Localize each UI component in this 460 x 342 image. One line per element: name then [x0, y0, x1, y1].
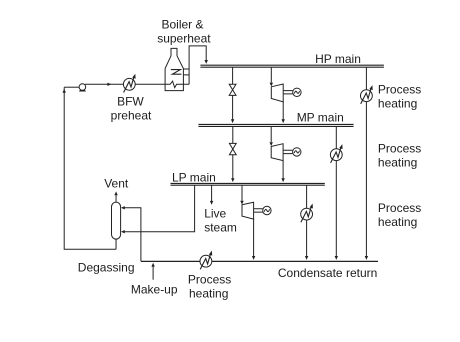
generator G1 — [293, 88, 301, 96]
shaft T2 — [283, 150, 293, 153]
pipe: pump suction from loop corner — [64, 86, 79, 88]
svg-text:HP main: HP main — [315, 52, 361, 66]
turbine T1 (HP) — [271, 84, 283, 102]
pipe: make-up feed — [152, 266, 154, 279]
pipe: MP turbine inlet — [270, 126, 272, 142]
svg-text:Live: Live — [204, 207, 226, 221]
arrow: vent up arrow — [114, 191, 117, 195]
arrow: boiler steam onto HP main — [205, 60, 208, 64]
svg-text:Process: Process — [378, 82, 421, 96]
boiler vessel (bottle shape) — [165, 48, 183, 90]
svg-text:Process: Process — [188, 272, 231, 286]
arrow: MP process line onto condensate — [335, 256, 338, 260]
arrow: valve2 onto LP main — [231, 178, 234, 182]
pipe: LP main header double line — [171, 183, 325, 185]
svg-text:steam: steam — [204, 220, 237, 234]
svg-text:heating: heating — [378, 156, 417, 170]
svg-text:Make-up: Make-up — [131, 282, 178, 296]
turbine T3 (LP) — [242, 202, 254, 219]
heat exchanger HX2: HP process heating — [361, 85, 373, 104]
pipe: MP to LP letdown valve line — [232, 126, 234, 178]
pipe: HP turbine inlet — [270, 67, 272, 82]
generator G3 — [263, 206, 271, 214]
pipe: boiler steam outlet riser to HP main — [189, 46, 206, 84]
pipe: LP process heating line — [306, 185, 308, 256]
arrow: make-up up arrow — [151, 263, 154, 267]
arrow: HP process line onto condensate — [365, 256, 368, 260]
arrow: LP process line onto condensate — [305, 256, 308, 260]
pipe: live steam draw-off — [211, 185, 213, 201]
svg-text:Boiler &: Boiler & — [161, 18, 203, 32]
arrow: steam into deaerator upper nozzle — [121, 206, 125, 209]
svg-text:heating: heating — [378, 215, 417, 229]
pipe: deaerator vent line — [115, 195, 117, 202]
arrow: LP turbine inlet arrow — [240, 201, 243, 205]
pipe: MP process heating line — [335, 126, 337, 256]
arrow: steam into deaerator lower nozzle — [121, 230, 125, 233]
svg-text:Process: Process — [378, 201, 421, 215]
arrow: valve1 onto MP main — [231, 119, 234, 123]
svg-text:superheat: superheat — [157, 32, 211, 46]
valve V1 (HP-MP letdown) — [229, 84, 236, 95]
turbine T2 (MP) — [271, 144, 283, 161]
heat exchanger HX3: MP process heating — [330, 144, 342, 163]
heat exchanger HX4: LP process heating — [301, 204, 313, 223]
heat exchanger HX5: condensate process heating — [200, 251, 212, 270]
pipe: boiler side drum stubs — [183, 69, 189, 75]
pipe: HP main header double line — [200, 65, 384, 67]
deaerator vessel (degassing column) — [112, 202, 121, 239]
arrow: feed line right arrow — [107, 83, 111, 86]
arrow: HP turbine inlet arrow — [270, 83, 273, 87]
arrow: MP turbine inlet arrow — [270, 142, 273, 146]
boiler superheater zigzag — [171, 70, 182, 75]
svg-text:MP main: MP main — [297, 111, 344, 125]
arrow: live steam arrow — [210, 201, 213, 205]
arrow: MP turbine exhaust onto LP main — [281, 178, 284, 182]
pipe: HP turbine exhaust to MP main — [282, 102, 284, 120]
pipe: condensate riser to deaerator — [125, 208, 141, 261]
pipe: feed line pump to boiler with evaporator zigzag — [85, 81, 189, 87]
svg-text:heating: heating — [378, 97, 417, 111]
svg-text:Vent: Vent — [104, 177, 129, 191]
pipe: condensate return header — [141, 260, 378, 262]
pipe: HP process heating line — [365, 67, 367, 256]
svg-text:Degassing: Degassing — [78, 260, 135, 274]
pipe: MP main header double line — [198, 124, 353, 126]
shaft T1 — [283, 91, 293, 94]
svg-text:heating: heating — [189, 286, 228, 300]
pipe: HP to MP letdown valve line — [232, 67, 234, 119]
arrow: up into pump suction corner — [62, 89, 65, 93]
pump P1 (BFW pump) — [79, 84, 86, 92]
arrow: HP turbine exhaust onto MP main — [282, 119, 285, 123]
svg-text:Process: Process — [378, 141, 421, 155]
generator G2 — [293, 148, 301, 156]
svg-text:preheat: preheat — [111, 108, 152, 122]
pipe: deaerator recirculation loop (left vertical + bottom horizontal) — [64, 87, 116, 249]
svg-text:LP main: LP main — [172, 170, 216, 184]
svg-text:Condensate return: Condensate return — [278, 266, 377, 280]
svg-text:BFW: BFW — [117, 95, 144, 109]
heat exchanger HX1: BFW preheat — [123, 74, 135, 93]
pipe: LP turbine inlet — [241, 185, 243, 201]
pipe: MP turbine exhaust to LP main — [282, 161, 284, 179]
pipe: LP steam to deaerator — [125, 185, 195, 232]
shaft T3 — [254, 209, 263, 212]
valve V2 (MP-LP letdown) — [229, 143, 236, 154]
pipe: LP turbine exhaust to condensate return — [253, 219, 255, 256]
arrow: LP turbine exhaust onto condensate — [252, 256, 255, 260]
